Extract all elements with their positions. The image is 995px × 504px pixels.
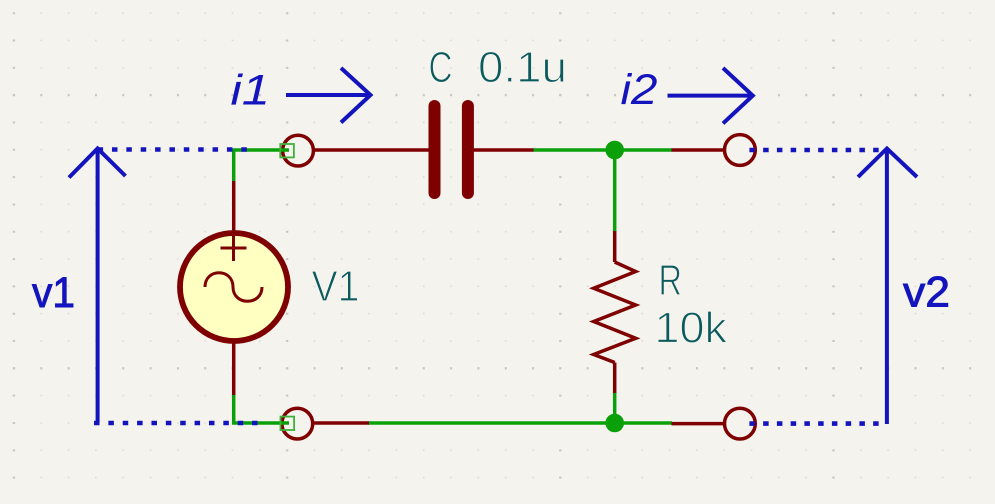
wire segment to top-right connector bbox=[672, 148, 724, 152]
wire segment bottom-left connector to net bbox=[314, 421, 369, 425]
dotted line v1 top bbox=[98, 147, 248, 152]
wire top middle (capacitor to node B) bbox=[533, 148, 672, 152]
pin-end square bottom-left bbox=[281, 417, 295, 430]
junction node B top bbox=[605, 141, 624, 160]
wire segment to bottom-right connector bbox=[672, 422, 724, 426]
arrow v2 bbox=[858, 149, 917, 425]
voltage source V1 bbox=[180, 181, 288, 395]
connector pin bottom-right bbox=[725, 408, 756, 439]
pin-end square top-left bbox=[280, 144, 294, 157]
wire resistor top bbox=[613, 150, 617, 232]
svg-text:i1: i1 bbox=[231, 68, 271, 115]
wire segment circle to capacitor (pin colored) bbox=[315, 148, 429, 152]
arrow v1 bbox=[69, 149, 126, 424]
dotted line v1 bottom bbox=[94, 421, 258, 426]
svg-text:v1: v1 bbox=[32, 270, 75, 317]
svg-text:C: C bbox=[429, 44, 453, 92]
wire resistor bottom bbox=[613, 392, 617, 423]
wire segment capacitor right pin bbox=[473, 148, 534, 152]
junction node C bottom bbox=[605, 414, 624, 433]
wire bottom-left (V1 to connector) bbox=[234, 394, 289, 423]
svg-text:0.1u: 0.1u bbox=[478, 44, 567, 92]
svg-text:R: R bbox=[659, 257, 683, 305]
svg-text:i2: i2 bbox=[621, 67, 658, 114]
connector pin top-left bbox=[283, 135, 314, 166]
connector pin top-right bbox=[725, 135, 756, 166]
arrow i1 bbox=[286, 68, 371, 123]
arrow i2 bbox=[668, 68, 753, 123]
svg-text:10k: 10k bbox=[655, 305, 728, 353]
capacitor C1 bbox=[435, 106, 468, 193]
svg-text:V1: V1 bbox=[312, 263, 360, 311]
resistor R1 bbox=[594, 231, 636, 393]
dotted line v2 top bbox=[742, 148, 879, 153]
wire top-left vertical (node A to V1) bbox=[234, 150, 289, 181]
dotted line v2 bottom bbox=[742, 421, 879, 426]
wire bottom middle bbox=[369, 421, 673, 425]
connector pin bottom-left bbox=[282, 408, 313, 439]
svg-text:v2: v2 bbox=[903, 270, 950, 317]
